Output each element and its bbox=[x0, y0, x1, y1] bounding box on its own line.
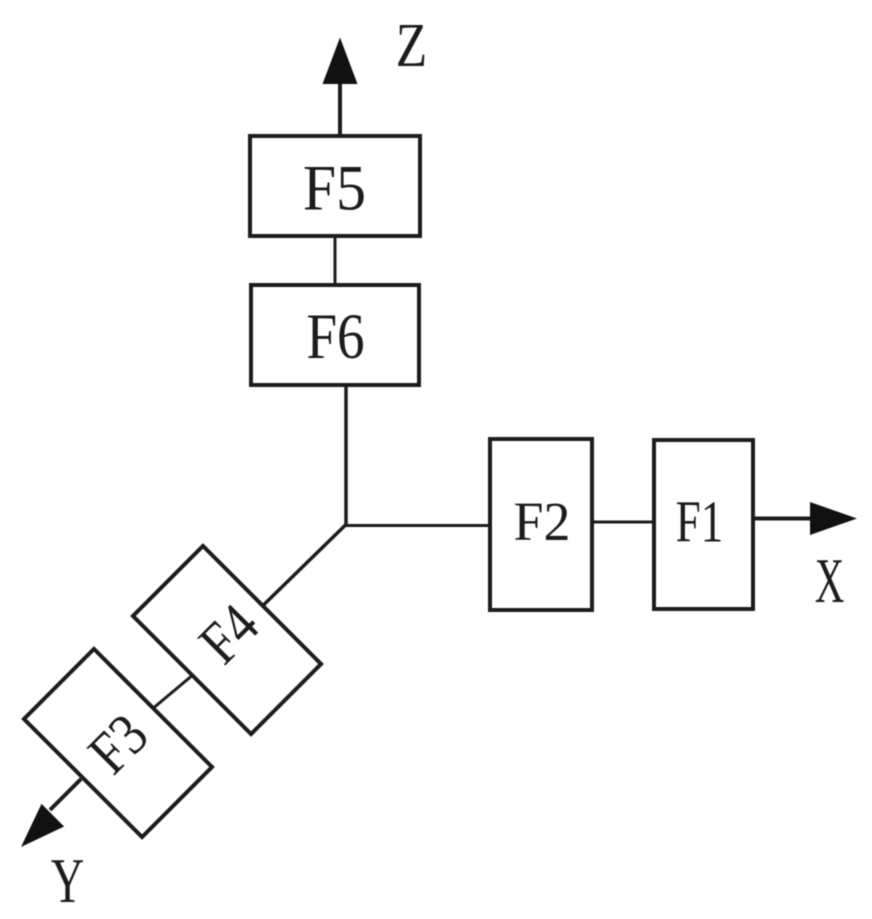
wire F4 to F3 bbox=[154, 677, 191, 708]
wire junction to F4 bbox=[264, 525, 346, 605]
block F6 bbox=[251, 285, 419, 385]
X-axis arrowhead bbox=[810, 502, 857, 535]
block F4 (rotated) bbox=[133, 546, 321, 734]
block F3 (rotated) bbox=[24, 649, 212, 837]
svg-text:F5: F5 bbox=[303, 151, 366, 224]
svg-text:F6: F6 bbox=[306, 301, 364, 373]
wire Y-axis arrow shaft bbox=[50, 779, 81, 810]
svg-text:F1: F1 bbox=[676, 490, 724, 555]
wire F6 down to junction bbox=[344, 387, 348, 527]
wire F2 to F1 bbox=[594, 521, 652, 524]
svg-text:Z: Z bbox=[396, 12, 427, 81]
block F2 bbox=[490, 439, 592, 610]
svg-text:X: X bbox=[815, 545, 845, 616]
block F5 bbox=[250, 136, 420, 236]
wire F5 to F6 bbox=[334, 238, 337, 283]
Z-axis arrowhead bbox=[323, 38, 358, 85]
wire Z-axis arrow shaft bbox=[338, 80, 342, 136]
svg-text:F2: F2 bbox=[514, 491, 571, 553]
wire junction to F2 bbox=[345, 524, 491, 527]
block F1 bbox=[654, 440, 753, 609]
wire X-axis arrow shaft bbox=[755, 517, 814, 521]
svg-text:Y: Y bbox=[51, 846, 84, 917]
Y-axis arrowhead bbox=[21, 804, 64, 847]
